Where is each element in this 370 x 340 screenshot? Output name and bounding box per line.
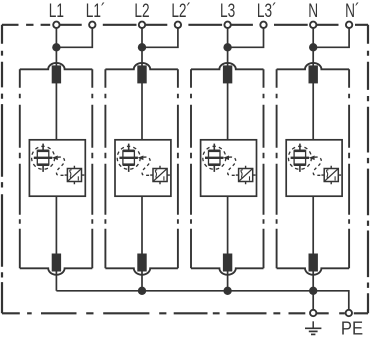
contact N top (plug-in disconnect) xyxy=(309,65,318,83)
contact L2 bottom (plug-in disconnect) xyxy=(137,254,146,272)
node PE bus junction L3 xyxy=(223,287,231,295)
spark gap F2 centre electrode xyxy=(119,157,137,159)
spark gap F4 bottom stub xyxy=(299,166,301,172)
contact L3 bottom (plug-in disconnect) xyxy=(223,254,232,272)
terminal PE xyxy=(346,310,352,316)
wire L1´ terminal drop and link xyxy=(56,28,92,47)
module L1 bottom edge with exit hump xyxy=(20,268,93,274)
enclosure border right edge (dash-dot) xyxy=(367,25,369,314)
svg-text:L2: L2 xyxy=(134,0,149,21)
module L2 top edge with entry hump xyxy=(105,63,177,69)
trigger circuit U1 output tick xyxy=(77,176,79,180)
module L1 top edge with entry hump xyxy=(20,63,93,69)
module L3 bottom edge with exit hump xyxy=(191,268,264,274)
spark gap F2 bottom electrode xyxy=(123,163,135,166)
spark gap F4 bottom electrode xyxy=(294,163,306,166)
contact N bottom (plug-in disconnect) xyxy=(309,254,318,272)
contact L3 top (plug-in disconnect) xyxy=(223,65,232,83)
wire N´ terminal drop and link xyxy=(313,28,349,47)
trigger circuit U2 output tick xyxy=(163,176,165,180)
spark gap F3 bottom electrode xyxy=(209,163,221,166)
spark gap F1 bottom stub xyxy=(42,166,44,172)
svg-text:N´: N´ xyxy=(345,0,359,21)
enclosure border bottom edge (dash-dot) xyxy=(2,312,368,314)
trigger circuit U2 flash glyph xyxy=(155,170,157,177)
wire N terminal drop xyxy=(312,28,314,47)
spark gap F3 top stub xyxy=(213,144,215,151)
trigger arrow into spark gap F3 xyxy=(223,156,229,161)
module N left edge (dash-dot) xyxy=(276,69,278,268)
trigger circuit U3 flash glyph xyxy=(241,170,243,177)
module L3 top edge with entry hump xyxy=(191,63,264,69)
svg-text:L3´: L3´ xyxy=(257,0,277,21)
trigger link dashed curve N xyxy=(313,157,321,175)
terminal N´ xyxy=(346,22,352,28)
wire N junction to module xyxy=(312,47,314,140)
spark gap F4 centre electrode xyxy=(291,157,310,159)
svg-text:L3: L3 xyxy=(220,0,235,21)
module N bottom edge with exit hump xyxy=(277,268,350,274)
wire L3 module to PE bus xyxy=(227,196,229,291)
node N junction xyxy=(309,43,317,51)
trigger circuit U1 box xyxy=(67,169,81,182)
spark gap F4 top stub xyxy=(299,144,301,151)
trigger circuit U3 diagonal xyxy=(239,169,252,181)
wire L2 module to PE bus xyxy=(141,196,143,291)
module L2 left edge (dash-dot) xyxy=(104,69,106,268)
trigger link dashed curve L3 xyxy=(228,157,236,175)
trigger circuit U1 diagonal xyxy=(68,169,81,181)
trigger link dashed curve L2 xyxy=(142,157,150,175)
module L1 right edge (dash-dot) xyxy=(91,69,93,268)
trigger circuit U4 output tick xyxy=(334,176,336,180)
trigger circuit U3 output tick xyxy=(249,176,251,180)
module L3 right edge (dash-dot) xyxy=(263,69,265,268)
module L3 left edge (dash-dot) xyxy=(190,69,192,268)
svg-text:L1: L1 xyxy=(49,0,64,21)
module L1 left edge (dash-dot) xyxy=(19,69,21,268)
ground symbol xyxy=(305,321,321,334)
module N right edge (dash-dot) xyxy=(348,69,350,268)
detail box L3 xyxy=(201,140,257,196)
spark gap F3 top electrode xyxy=(209,150,221,153)
terminal L1 xyxy=(53,22,59,28)
spark gap F3 bottom stub xyxy=(213,166,215,172)
trigger arrow into spark gap F1 xyxy=(52,156,58,161)
wire L1 module to PE bus xyxy=(55,196,57,291)
svg-text:L2´: L2´ xyxy=(171,0,191,21)
terminal L2´ xyxy=(175,22,181,28)
spark gap F2 top electrode xyxy=(123,150,135,153)
module L2 bottom edge with exit hump xyxy=(105,268,177,274)
spark gap F1 enclosure (dashed circle) xyxy=(32,146,55,169)
svg-text:PE: PE xyxy=(341,318,363,339)
trigger arrow into spark gap F4 xyxy=(309,156,315,161)
trigger circuit U3 stubs xyxy=(236,166,256,185)
trigger circuit U1 stubs xyxy=(65,166,85,185)
terminal N xyxy=(310,22,316,28)
wire L1 terminal drop xyxy=(55,28,57,47)
wire L2´ terminal drop and link xyxy=(142,28,178,47)
trigger circuit U4 diagonal xyxy=(325,169,338,181)
contact L1 top (plug-in disconnect) xyxy=(52,65,61,83)
detail box N xyxy=(286,140,342,196)
spark gap F3 body rails xyxy=(209,151,221,165)
spark gap F2 enclosure (dashed circle) xyxy=(117,146,140,169)
spark gap F3 centre electrode xyxy=(205,157,224,159)
spark gap F2 body rails xyxy=(123,151,134,165)
terminal L1´ xyxy=(89,22,95,28)
wire L2 junction to module xyxy=(141,47,143,140)
wire N module to PE bus xyxy=(312,196,314,291)
terminal earth xyxy=(310,310,316,316)
detail box L1 xyxy=(29,140,85,196)
trigger circuit U2 stubs xyxy=(150,166,170,185)
spark gap F3 enclosure (dashed circle) xyxy=(203,146,226,169)
contact L1 bottom (plug-in disconnect) xyxy=(52,254,61,272)
svg-text:N: N xyxy=(308,0,318,21)
wire L3 junction to module xyxy=(227,47,229,140)
wire L3´ terminal drop and link xyxy=(228,28,264,47)
spark gap F4 enclosure (dashed circle) xyxy=(288,146,311,169)
trigger circuit U1 flash glyph xyxy=(70,170,72,177)
spark gap F4 body rails xyxy=(294,151,306,165)
node PE bus junction L2 xyxy=(138,287,146,295)
spark gap F2 bottom stub xyxy=(128,166,130,172)
spark gap F1 bottom electrode xyxy=(37,163,49,166)
trigger arrow into spark gap F2 xyxy=(138,156,144,161)
trigger circuit U2 diagonal xyxy=(154,169,167,181)
module N top edge with entry hump xyxy=(277,63,350,69)
terminal L3´ xyxy=(260,22,266,28)
wire earth drop xyxy=(312,291,314,310)
spark gap F1 body rails xyxy=(37,151,49,165)
wire L2 terminal drop xyxy=(141,28,143,47)
wire L1 junction to module xyxy=(55,47,57,140)
node L2 junction xyxy=(138,43,146,51)
module L2 right edge (dash-dot) xyxy=(177,69,179,268)
trigger circuit U2 box xyxy=(153,169,167,182)
wire L3 terminal drop xyxy=(227,28,229,47)
node L1 junction xyxy=(52,43,60,51)
trigger circuit U4 box xyxy=(324,169,338,182)
spark gap F1 centre electrode xyxy=(34,157,53,159)
trigger circuit U4 flash glyph xyxy=(327,170,329,177)
svg-text:L1´: L1´ xyxy=(86,0,106,21)
node PE bus junction N xyxy=(309,287,317,295)
enclosure border top edge (dash-dot) xyxy=(2,24,368,26)
spark gap F1 top stub xyxy=(42,144,44,151)
spark gap F4 top electrode xyxy=(294,150,306,153)
terminal L3 xyxy=(224,22,230,28)
enclosure border left edge (dash-dot) xyxy=(1,25,3,314)
contact L2 top (plug-in disconnect) xyxy=(137,65,146,83)
trigger circuit U4 stubs xyxy=(321,166,341,185)
node L3 junction xyxy=(223,43,231,51)
terminal L2 xyxy=(139,22,145,28)
detail box L2 xyxy=(115,140,171,196)
trigger link dashed curve L1 xyxy=(56,157,64,175)
spark gap F1 top electrode xyxy=(37,150,49,153)
trigger circuit U3 box xyxy=(239,169,253,182)
wire PE bus xyxy=(56,291,348,310)
spark gap F2 top stub xyxy=(128,144,130,151)
